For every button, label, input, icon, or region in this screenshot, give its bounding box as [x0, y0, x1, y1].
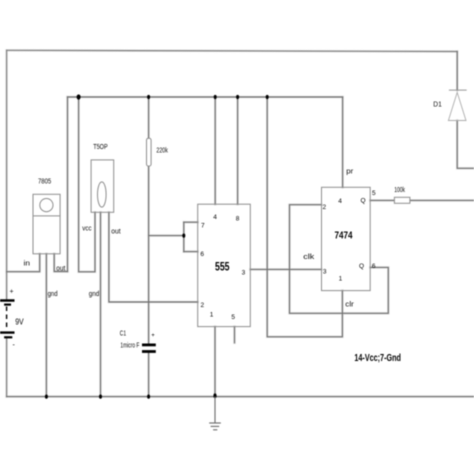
svg-text:3: 3 [323, 269, 327, 276]
wire TSOP out to 555 pin 2 [109, 212, 198, 302]
svg-text:gnd: gnd [48, 291, 58, 298]
wire diode top from frame [456, 52, 458, 91]
svg-text:100k: 100k [394, 187, 405, 194]
wire frame top border [7, 50, 458, 51]
wire TSOP vcc path from rail [79, 97, 95, 272]
svg-text:vcc: vcc [82, 226, 92, 233]
wire diode bottom [457, 121, 474, 169]
svg-text:Q: Q [361, 197, 366, 204]
wire rail left end drop to 7805 out [67, 97, 69, 272]
svg-text:1: 1 [339, 276, 343, 283]
wire 7805 in pin to battery [7, 254, 40, 272]
capacitor C1 plates [142, 345, 156, 352]
node ground rail junction 555 pin1 [213, 393, 216, 398]
svg-text:clk: clk [303, 254, 315, 261]
wire 555 pin 8 from rail [237, 97, 239, 204]
wire frame left border lower [6, 337, 8, 396]
svg-text:C1: C1 [120, 331, 126, 338]
wire 7474 pr from rail [342, 97, 344, 187]
svg-text:gnd: gnd [89, 291, 100, 298]
svg-text:1: 1 [210, 311, 214, 318]
svg-text:555: 555 [215, 261, 230, 273]
diode D1 cathode bar [449, 89, 467, 91]
wire junction 220k to 555 pins 7-6 [149, 235, 184, 237]
wire Vcc top rail [68, 96, 343, 98]
svg-text:clr: clr [345, 301, 354, 308]
svg-text:9V: 9V [15, 318, 24, 327]
svg-text:D1: D1 [433, 102, 442, 109]
svg-text:7474: 7474 [335, 231, 353, 242]
regulator U2 7805 body [33, 194, 60, 254]
wire C1 lower lead [148, 353, 150, 397]
svg-text:7805: 7805 [38, 178, 51, 185]
svg-text:7: 7 [201, 222, 205, 229]
svg-text:5: 5 [231, 314, 235, 321]
svg-text:pr: pr [346, 169, 354, 176]
wire frame left border upper [6, 50, 8, 300]
op-amp U1 555 body [198, 204, 251, 326]
IR receiver TSOP body [91, 160, 114, 212]
diode D1 triangle [448, 92, 466, 120]
svg-text:6: 6 [372, 263, 376, 270]
node rail junction at 555 pin4 [214, 95, 217, 99]
svg-text:220k: 220k [156, 148, 168, 155]
svg-text:2: 2 [201, 302, 205, 309]
node rail junction at clr branch [266, 95, 269, 99]
node ground rail junction 7805 gnd [45, 395, 48, 399]
svg-text:4: 4 [338, 198, 342, 205]
svg-text:2: 2 [323, 204, 327, 211]
svg-text:in: in [24, 261, 31, 268]
wire 7474 Q pin5 output [370, 199, 474, 201]
wire 555 pin 3 to 7474 clk [250, 268, 321, 270]
svg-text:6: 6 [200, 251, 204, 258]
node rail junction at x78 [77, 94, 81, 99]
svg-text:+: + [10, 289, 14, 296]
svg-text:T5OP: T5OP [93, 144, 108, 151]
node ground rail junction TSOP gnd [99, 395, 102, 399]
svg-text:5: 5 [372, 190, 376, 197]
wire 7805 gnd pin [45, 254, 47, 397]
node rail junction at 555 pin8 [236, 95, 239, 99]
svg-text:+: + [151, 333, 155, 339]
wire 7805 out pin [54, 254, 67, 272]
ground symbol [209, 397, 221, 430]
svg-text:3: 3 [242, 269, 246, 276]
svg-text:out: out [111, 229, 120, 236]
svg-text:out: out [56, 265, 65, 272]
svg-text:-: - [13, 342, 16, 349]
battery B1 9V [0, 301, 15, 338]
wire 555 pin 4 from rail [214, 97, 216, 204]
wire 7474 clr to rail [267, 97, 342, 337]
resistor R2 100k body [394, 197, 410, 203]
svg-text:8: 8 [236, 215, 240, 222]
node junction 220k-555 tee [182, 234, 185, 238]
wire 555 pin 1 to ground rail [214, 327, 216, 397]
wire TSOP gnd pin [100, 212, 102, 396]
wire 555 pin 6 stub [184, 251, 198, 253]
node rail junction at 220k [147, 95, 150, 99]
svg-text:1micro F: 1micro F [120, 343, 139, 350]
wire 220k branch upper [148, 97, 150, 343]
resistor R1 220k body [147, 138, 152, 166]
wire bottom ground rail [7, 396, 474, 398]
node ground rail junction C1 [147, 395, 150, 399]
wire 555 pin 7 stub [184, 221, 198, 223]
flip-flop U3 7474 body [322, 187, 371, 290]
wire 555 pin 5 stub [234, 327, 236, 343]
wire 555 pin7-pin6 tie [183, 222, 185, 251]
svg-text:4: 4 [213, 214, 217, 221]
wire 7474 D pin2 to Qbar loop [290, 205, 389, 314]
svg-text:Q: Q [359, 263, 364, 270]
svg-text:14-Vcc;7-Gnd: 14-Vcc;7-Gnd [354, 353, 401, 364]
